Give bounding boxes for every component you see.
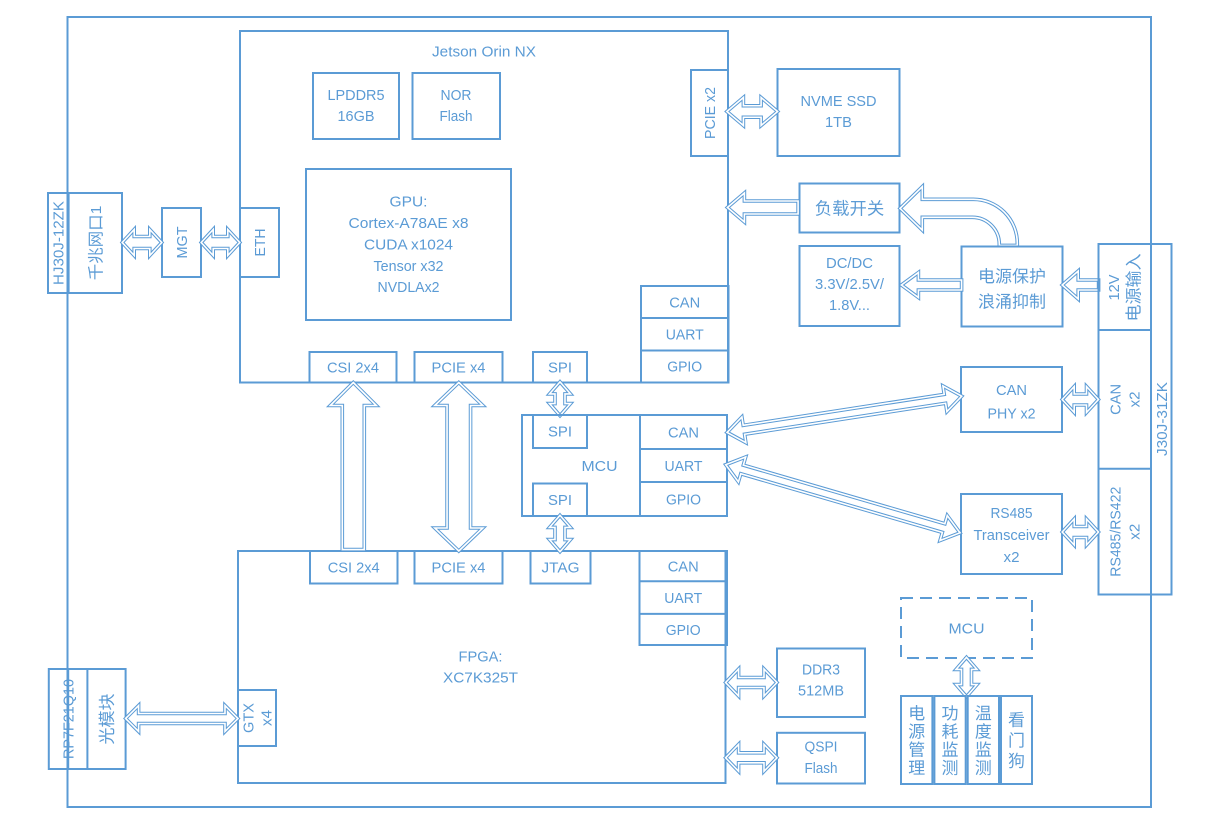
load switch (fu zai kai guan): [800, 184, 900, 233]
connector RP7F21Q10: [49, 669, 126, 769]
svg-text:GPIO: GPIO: [666, 491, 701, 508]
svg-text:CAN: CAN: [1108, 384, 1125, 415]
arrow PCIEx2-NVME: [727, 98, 778, 126]
SPI arrow MCU-FPGA(JTAG): [550, 515, 571, 551]
svg-text:JTAG: JTAG: [542, 560, 580, 577]
12V power input cell: [1106, 254, 1141, 319]
svg-text:PCIE x4: PCIE x4: [432, 360, 486, 377]
svg-text:FPGA:: FPGA:: [459, 648, 503, 665]
svg-text:x2: x2: [1127, 524, 1144, 540]
arrow 12V input to protection: [1062, 271, 1098, 299]
svg-text:CAN: CAN: [996, 382, 1027, 399]
diagonal arrow MCU CAN - CAN PHY: [727, 386, 962, 443]
svg-text:HJ30J-12ZK: HJ30J-12ZK: [51, 201, 68, 285]
svg-text:MCU: MCU: [582, 458, 618, 475]
svg-text:1.8V...: 1.8V...: [829, 297, 870, 314]
svg-text:Transceiver: Transceiver: [974, 527, 1050, 544]
svg-text:Jetson Orin NX: Jetson Orin NX: [432, 43, 536, 60]
CSI 2x4 port on Jetson: [310, 352, 397, 383]
temperature monitor box (wen du jian ce): [968, 696, 999, 784]
Jetson CAN/UART/GPIO port stack: [641, 286, 729, 383]
arrow MCU-monitors: [956, 657, 977, 696]
svg-text:x4: x4: [258, 710, 275, 726]
svg-text:1TB: 1TB: [825, 114, 852, 131]
CSI bus arrow (FPGA to Jetson, up): [330, 383, 376, 550]
power management box (dian yuan guan li): [901, 696, 932, 784]
NVME SSD 1TB block: [778, 69, 900, 156]
svg-text:PCIE x4: PCIE x4: [432, 560, 486, 577]
svg-text:RS485: RS485: [991, 505, 1033, 522]
svg-text:GPU:: GPU:: [390, 194, 428, 211]
CSI 2x4 port on FPGA: [310, 551, 398, 584]
svg-text:NVME SSD: NVME SSD: [801, 93, 877, 110]
SPI port on Jetson: [533, 352, 587, 383]
PCIE x2 port on Jetson: [691, 70, 728, 156]
svg-text:3.3V/2.5V/: 3.3V/2.5V/: [815, 276, 885, 293]
connector J30J-31ZK: [1099, 244, 1172, 595]
PCIE x4 port on Jetson: [415, 352, 503, 383]
arrow load switch to Jetson: [727, 193, 798, 222]
SPI port on MCU (top): [533, 415, 587, 448]
svg-text:SPI: SPI: [548, 424, 572, 441]
bent arrow power-protection to load switch: [900, 187, 1017, 246]
svg-text:x2: x2: [1004, 549, 1020, 566]
svg-text:MCU: MCU: [949, 620, 985, 637]
watchdog box (kan men gou): [1001, 696, 1032, 784]
arrow CANPHY-CANx2: [1062, 387, 1098, 413]
svg-text:CSI 2x4: CSI 2x4: [327, 360, 379, 377]
svg-text:CAN: CAN: [668, 559, 699, 576]
svg-text:PCIE x2: PCIE x2: [702, 87, 719, 139]
arrow FPGA-QSPI: [726, 744, 777, 771]
svg-text:DDR3: DDR3: [802, 661, 840, 678]
svg-text:XC7K325T: XC7K325T: [443, 669, 518, 686]
svg-text:12V: 12V: [1106, 275, 1123, 301]
svg-text:GPIO: GPIO: [667, 359, 702, 376]
arrow protection to DC/DC: [901, 273, 961, 298]
svg-text:RP7F21Q10: RP7F21Q10: [61, 679, 78, 759]
svg-text:QSPI: QSPI: [805, 739, 838, 756]
RS485/RS422 x2 cell: [1108, 487, 1144, 577]
MCU (dashed) block: [901, 598, 1032, 658]
LPDDR5 16GB block: [313, 73, 399, 139]
svg-text:ETH: ETH: [252, 229, 269, 257]
svg-text:UART: UART: [666, 326, 704, 343]
arrow MGT-ETH: [201, 230, 240, 256]
svg-text:Tensor x32: Tensor x32: [374, 258, 444, 275]
svg-text:1: 1: [88, 206, 105, 215]
svg-text:CSI 2x4: CSI 2x4: [328, 560, 380, 577]
SPI arrow Jetson-MCU: [550, 382, 571, 416]
PCIE x4 port on FPGA: [415, 551, 503, 584]
svg-text:SPI: SPI: [548, 360, 572, 377]
MCU CAN/UART/GPIO port stack: [640, 415, 727, 516]
PCIE x4 bus arrow (bidirectional): [435, 383, 483, 552]
power protection / surge suppression block: [962, 247, 1063, 327]
MCU block: [522, 415, 727, 516]
svg-text:GPIO: GPIO: [666, 622, 701, 639]
svg-text:CUDA x1024: CUDA x1024: [364, 236, 453, 253]
NOR Flash block: [413, 73, 501, 139]
svg-text:J30J-31ZK: J30J-31ZK: [1154, 382, 1171, 456]
svg-text:512MB: 512MB: [798, 683, 844, 700]
GPU block: [306, 169, 511, 320]
CAN x2 cell: [1108, 384, 1144, 415]
Jetson Orin NX module block: [240, 31, 728, 383]
GTX x4 port on FPGA: [238, 690, 276, 746]
svg-text:Cortex-A78AE x8: Cortex-A78AE x8: [349, 215, 469, 232]
svg-text:CAN: CAN: [668, 424, 699, 441]
FPGA XC7K325T module block: [238, 551, 726, 783]
arrow FPGA-DDR3: [726, 669, 777, 696]
svg-text:UART: UART: [664, 590, 702, 607]
svg-text:DC/DC: DC/DC: [826, 255, 873, 272]
arrow GbE-MGT: [122, 230, 162, 256]
RS485 Transceiver x2 block: [961, 494, 1062, 574]
svg-text:16GB: 16GB: [338, 108, 375, 125]
svg-text:Flash: Flash: [440, 108, 473, 125]
GbE port 1 (qian zhao wang kou 1): [88, 206, 105, 280]
power consumption monitor box (gong hao jian ce): [934, 696, 965, 784]
svg-text:LPDDR5: LPDDR5: [328, 87, 385, 104]
connector HJ30J-12ZK: [48, 193, 122, 293]
diagonal arrow MCU UART - RS485 transceiver: [726, 457, 960, 541]
MGT block: [162, 208, 201, 277]
DDR3 512MB block: [777, 649, 865, 718]
svg-text:RS485/RS422: RS485/RS422: [1108, 487, 1125, 577]
svg-text:UART: UART: [665, 458, 703, 475]
svg-text:Flash: Flash: [805, 760, 838, 777]
svg-text:NVDLAx2: NVDLAx2: [378, 279, 440, 296]
svg-text:x2: x2: [1127, 391, 1144, 407]
svg-text:CAN: CAN: [669, 294, 700, 311]
svg-text:GTX: GTX: [240, 703, 257, 733]
ETH port on Jetson: [240, 208, 279, 277]
arrow optical-GTX: [126, 706, 238, 732]
arrow RS485-RS422 cell: [1062, 519, 1098, 545]
SPI port on MCU (bottom): [533, 484, 587, 517]
svg-text:NOR: NOR: [441, 87, 472, 104]
QSPI Flash block: [777, 733, 865, 784]
svg-text:MGT: MGT: [174, 227, 191, 259]
CAN PHY x2 block: [961, 367, 1062, 432]
FPGA CAN/UART/GPIO port stack: [640, 551, 728, 645]
JTAG port on FPGA: [531, 551, 591, 584]
optical module (guang mo kuai): [99, 694, 115, 744]
svg-text:SPI: SPI: [548, 492, 572, 509]
DC/DC converter block: [800, 246, 900, 326]
svg-text:PHY x2: PHY x2: [988, 405, 1036, 422]
